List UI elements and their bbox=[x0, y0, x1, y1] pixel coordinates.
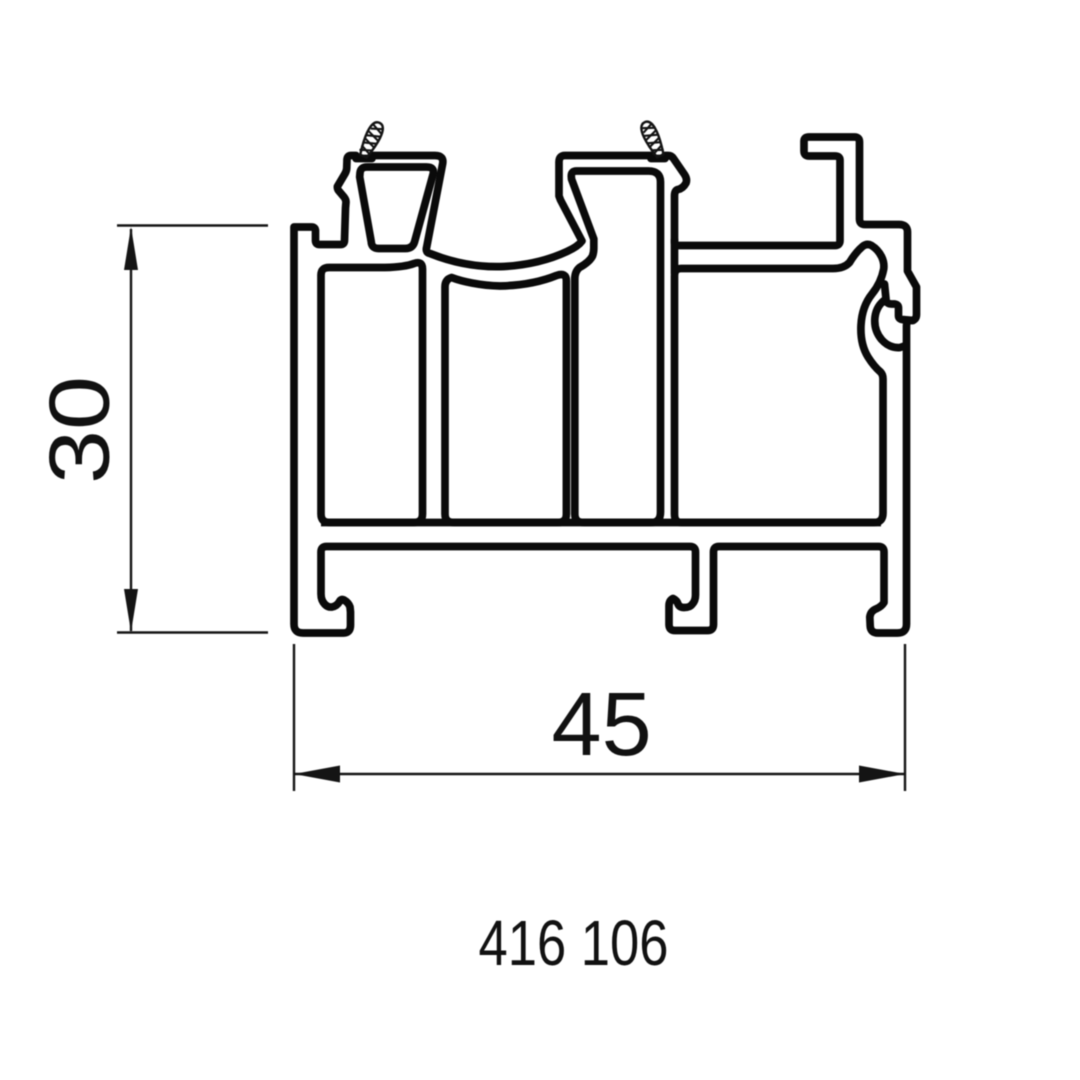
svg-text:45: 45 bbox=[552, 675, 652, 775]
svg-text:416 106: 416 106 bbox=[479, 907, 669, 979]
svg-text:30: 30 bbox=[33, 376, 128, 484]
